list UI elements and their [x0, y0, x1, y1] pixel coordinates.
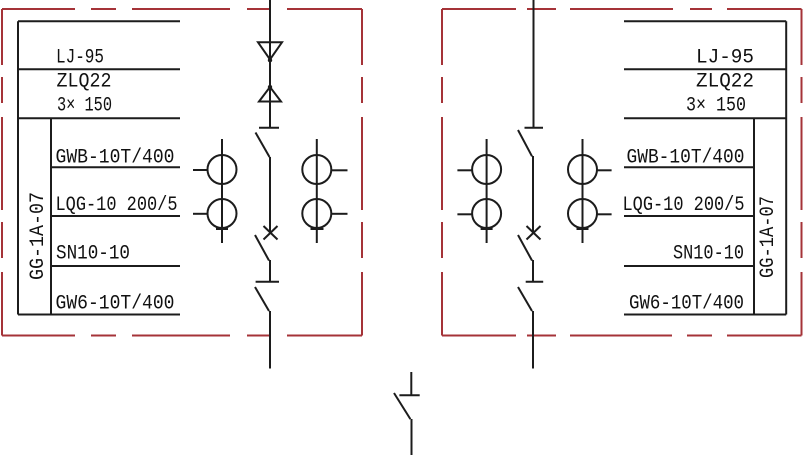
wire — [532, 311, 534, 369]
svg-text:LQG-10 200/5: LQG-10 200/5 — [623, 194, 745, 217]
disconnect blade below breaker (P1) — [255, 235, 269, 261]
svg-text:3× 150: 3× 150 — [686, 95, 746, 118]
disconnect switch QS3 (P2 upper) — [518, 128, 543, 157]
bus tie switch QS5 (bottom centre) — [394, 372, 420, 455]
wire — [269, 311, 271, 369]
svg-text:GW6-10T/400: GW6-10T/400 — [56, 293, 175, 316]
svg-text:ZLQ22: ZLQ22 — [696, 71, 754, 94]
wire — [269, 157, 271, 233]
disconnect blade below breaker (P2) — [518, 235, 532, 261]
disconnect switch QS2 (P1 lower) — [255, 282, 279, 311]
svg-text:3× 150: 3× 150 — [57, 95, 112, 118]
svg-text:GWB-10T/400: GWB-10T/400 — [56, 147, 175, 170]
nameplate table P2 — [624, 21, 786, 314]
svg-text:LJ-95: LJ-95 — [696, 47, 754, 70]
circuit breaker QF1 (X symbol, P1) — [264, 226, 278, 240]
surge arrester F1 lower triangle (P1) — [259, 87, 281, 102]
svg-text:GWB-10T/400: GWB-10T/400 — [627, 147, 745, 170]
panel P2 enclosure GG-1A-07 (red dashed box) — [442, 9, 802, 336]
svg-text:ZLQ22: ZLQ22 — [57, 71, 112, 94]
wire: P2 incoming feeder — [533, 0, 535, 128]
circuit breaker QF2 (X symbol, P2) — [527, 226, 541, 240]
current transformer TA1 (P1 left) — [193, 139, 237, 243]
svg-text:SN10-10: SN10-10 — [56, 243, 130, 266]
panel P1 enclosure GG-1A-07 (red dashed box) — [2, 9, 362, 336]
svg-text:GW6-10T/400: GW6-10T/400 — [629, 293, 744, 316]
svg-text:GG-1A-07: GG-1A-07 — [757, 196, 780, 278]
disconnect switch QS4 (P2 lower) — [518, 282, 543, 311]
wire — [532, 260, 534, 282]
wire — [269, 260, 271, 282]
wire — [532, 156, 534, 233]
svg-text:SN10-10: SN10-10 — [673, 243, 744, 266]
svg-text:LQG-10 200/5: LQG-10 200/5 — [56, 194, 178, 217]
current transformer TA3 (P2 left) — [457, 139, 501, 243]
node: arrester gap top — [268, 58, 272, 62]
svg-text:GG-1A-07: GG-1A-07 — [27, 192, 50, 280]
wire: P1 incoming feeder — [269, 0, 271, 128]
current transformer TA2 (P1 right) — [302, 139, 347, 243]
node: arrester gap bottom — [268, 85, 272, 89]
disconnect switch QS1 (P1 upper) — [256, 128, 280, 157]
nameplate table P1 — [18, 21, 180, 314]
svg-text:LJ-95: LJ-95 — [56, 47, 104, 70]
current transformer TA4 (P2 right) — [568, 139, 612, 243]
surge arrester F1 upper triangle (P1) — [258, 42, 282, 59]
